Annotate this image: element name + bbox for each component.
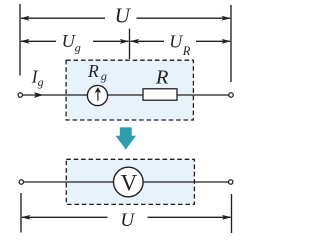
svg-text:U: U	[115, 4, 132, 28]
wire (between Rg and R)	[108, 94, 144, 96]
svg-text:R: R	[155, 67, 169, 89]
extension line right (top)	[230, 5, 232, 82]
terminal node (top right)	[229, 93, 233, 97]
extension line left (bottom)	[20, 193, 22, 233]
wire (bottom left)	[24, 181, 114, 183]
extension line right (bottom)	[231, 194, 233, 233]
dimension line U (top)	[20, 16, 231, 21]
extension line left (top)	[19, 4, 21, 76]
wire (bottom right)	[143, 181, 228, 183]
dimension line UR	[130, 39, 231, 44]
terminal node (bottom left)	[19, 180, 23, 184]
current arrow Ig	[34, 92, 44, 98]
svg-text:V: V	[121, 171, 138, 196]
terminal node (bottom right)	[229, 180, 233, 184]
wire (top left)	[23, 94, 88, 96]
dimension line U (bottom)	[21, 215, 232, 220]
dashed box (source region, top)	[66, 60, 193, 120]
extension line middle divider	[129, 29, 131, 59]
galvanometer Rg	[87, 85, 107, 105]
terminal node (top left)	[18, 93, 22, 97]
wire (top right)	[177, 94, 229, 96]
voltmeter V	[114, 167, 144, 197]
dimension line Ug	[20, 39, 129, 44]
transform arrow (teal)	[116, 127, 137, 149]
dashed box (voltmeter region, bottom)	[66, 159, 194, 204]
resistor R	[143, 89, 177, 100]
svg-text:U: U	[120, 210, 135, 231]
